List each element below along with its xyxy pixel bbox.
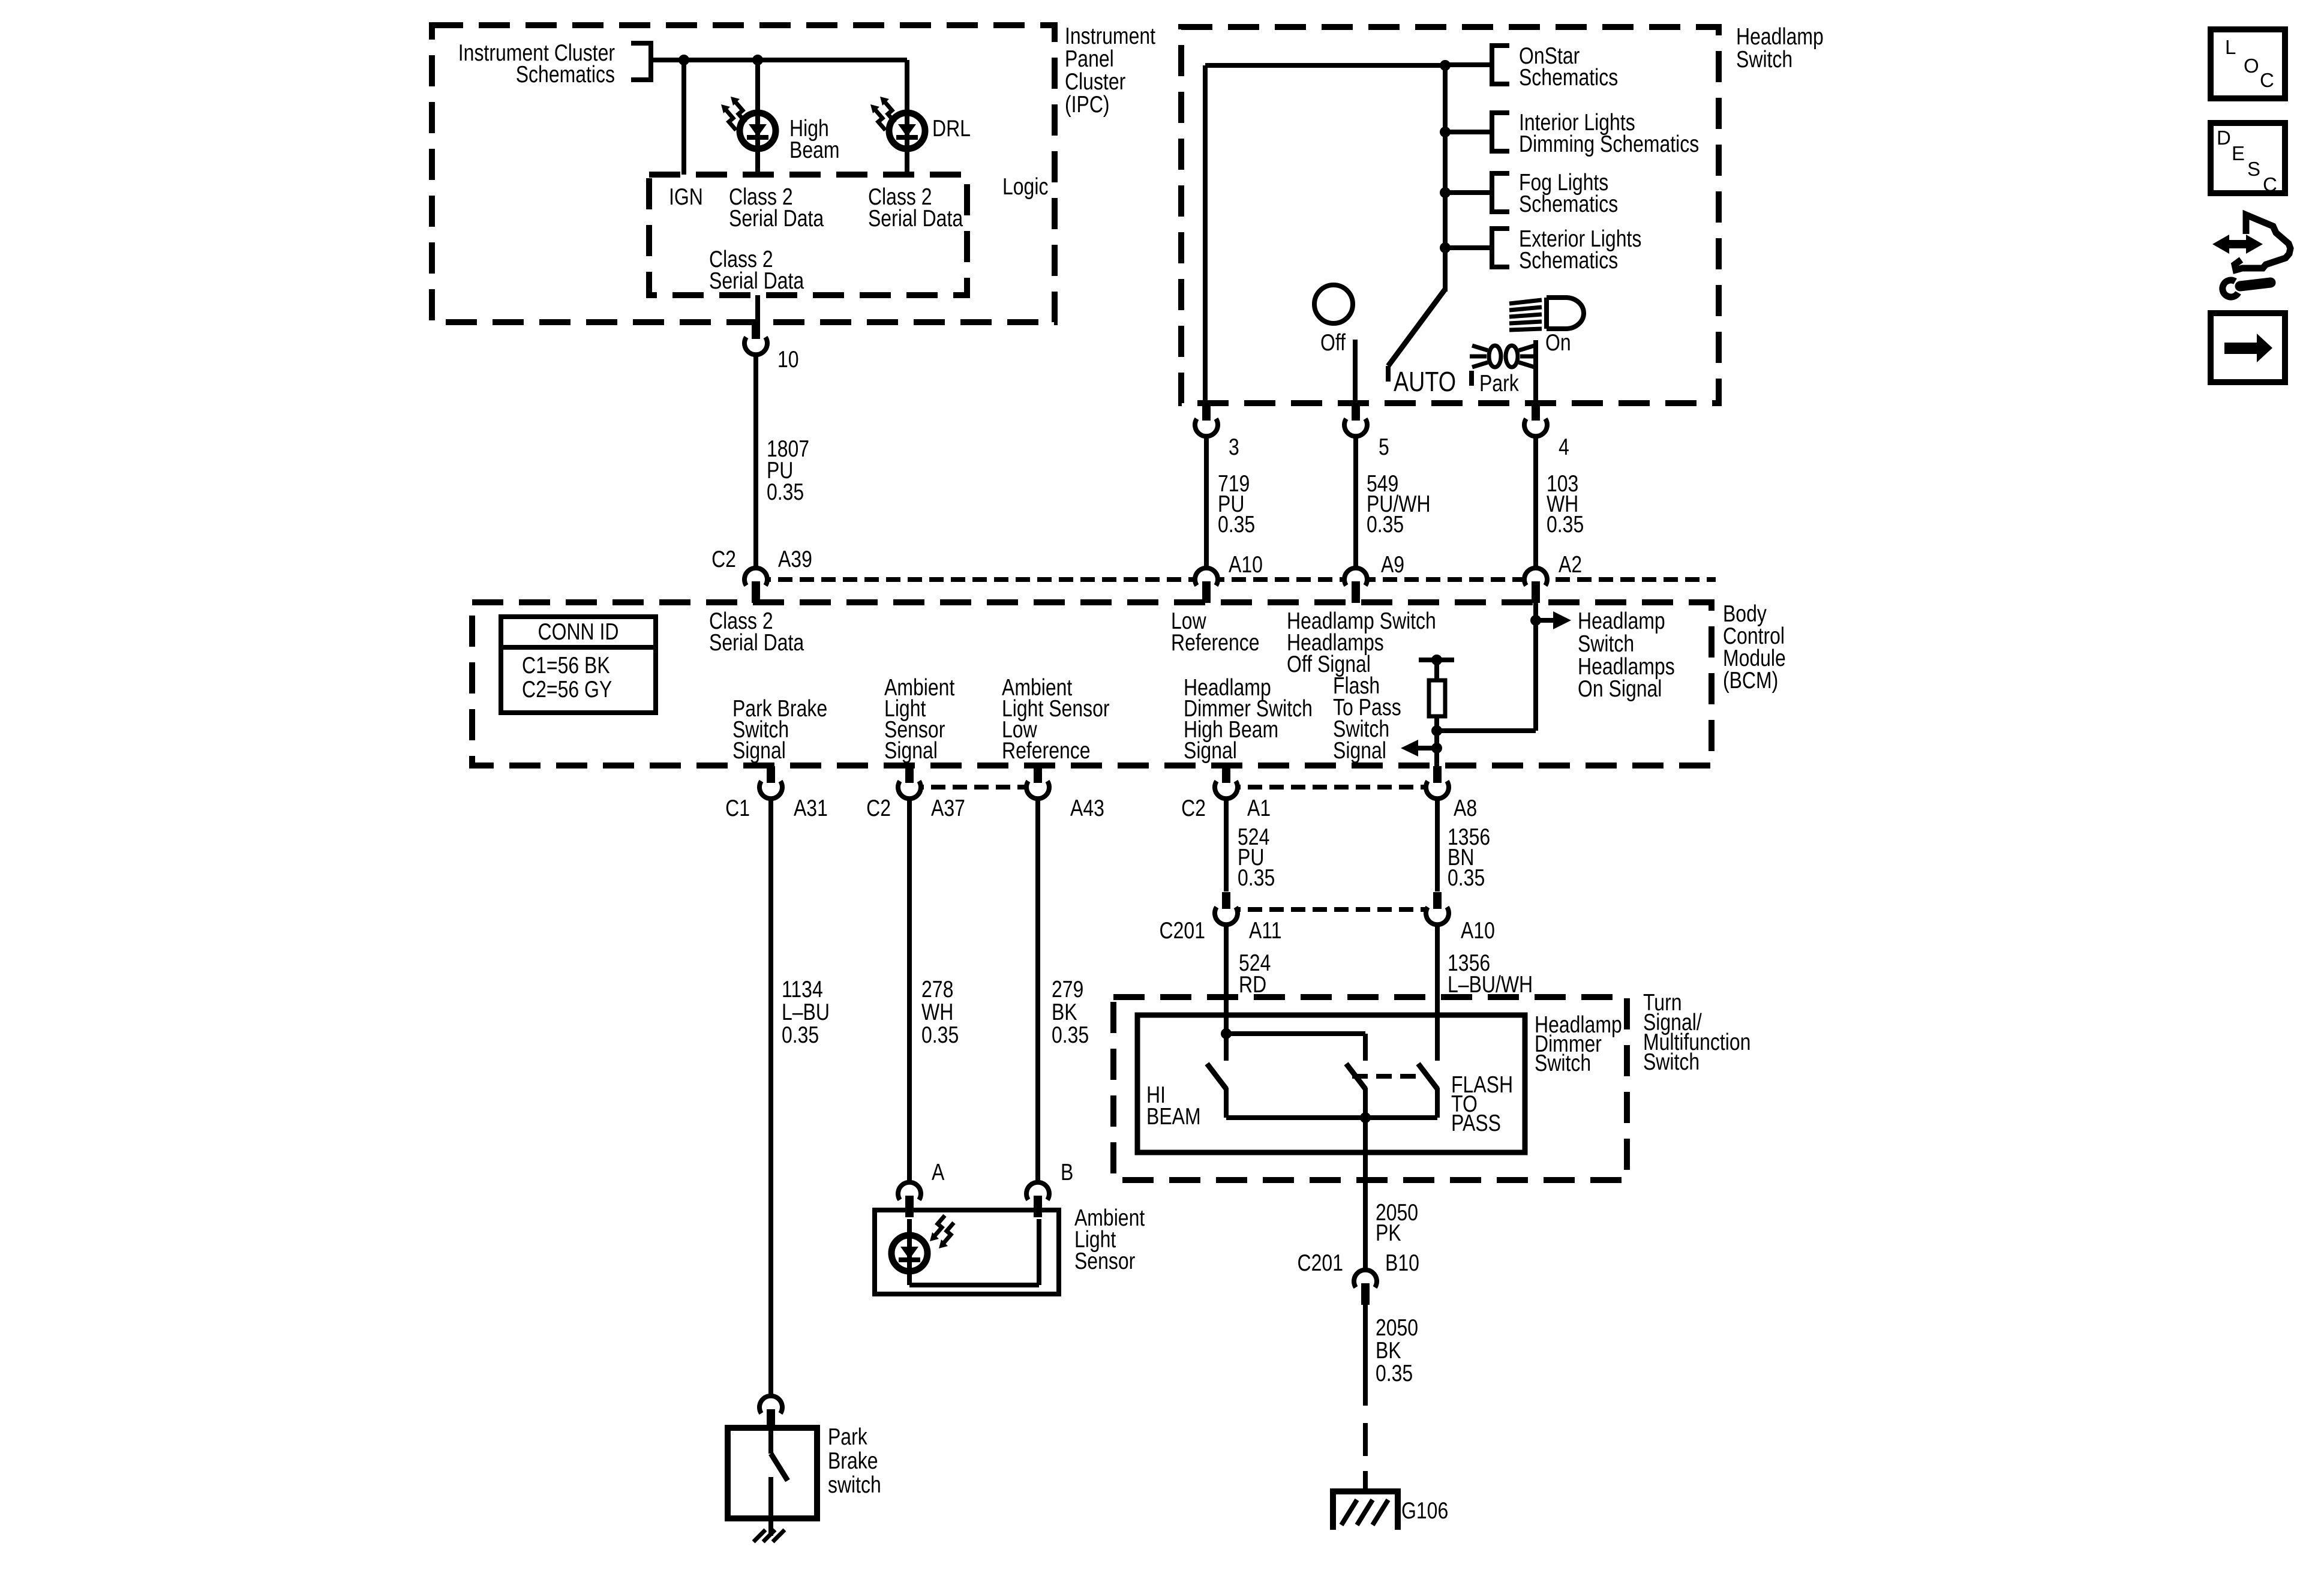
svg-text:Serial Data: Serial Data: [729, 205, 824, 232]
svg-text:C2: C2: [866, 795, 891, 821]
svg-text:C2: C2: [711, 546, 736, 572]
svg-text:C2=56 GY: C2=56 GY: [522, 676, 612, 703]
svg-text:0.35: 0.35: [1376, 1360, 1413, 1386]
svg-text:Beam: Beam: [789, 137, 840, 163]
svg-text:G106: G106: [1401, 1497, 1448, 1524]
svg-text:C201: C201: [1298, 1250, 1343, 1276]
svg-text:Schematics: Schematics: [1519, 247, 1618, 274]
svg-text:A9: A9: [1381, 551, 1404, 578]
svg-text:On: On: [1545, 329, 1571, 356]
svg-text:Switch: Switch: [1736, 46, 1792, 73]
svg-text:C2: C2: [1181, 795, 1206, 821]
svg-text:Signal: Signal: [884, 737, 938, 764]
svg-text:L: L: [2225, 36, 2236, 58]
svg-text:Dimming Schematics: Dimming Schematics: [1519, 131, 1699, 157]
svg-text:0.35: 0.35: [1218, 511, 1255, 538]
svg-text:Serial Data: Serial Data: [868, 205, 963, 232]
svg-text:CONN ID: CONN ID: [538, 619, 618, 645]
svg-text:Serial Data: Serial Data: [709, 268, 804, 294]
svg-text:C: C: [2263, 173, 2277, 196]
svg-text:switch: switch: [828, 1472, 881, 1498]
svg-text:0.35: 0.35: [1238, 864, 1275, 891]
svg-text:Park: Park: [1479, 370, 1519, 397]
svg-text:Schematics: Schematics: [1519, 191, 1618, 217]
svg-text:Off: Off: [1320, 329, 1346, 356]
svg-text:E: E: [2232, 142, 2245, 164]
svg-text:0.35: 0.35: [1367, 511, 1404, 538]
svg-text:L–BU/WH: L–BU/WH: [1448, 971, 1533, 998]
svg-text:C201: C201: [1160, 917, 1205, 944]
svg-text:0.35: 0.35: [1052, 1022, 1089, 1048]
svg-text:Reference: Reference: [1171, 629, 1260, 656]
svg-text:Signal: Signal: [1184, 737, 1237, 764]
svg-text:4: 4: [1559, 434, 1569, 460]
svg-text:Serial Data: Serial Data: [709, 629, 804, 656]
svg-text:0.35: 0.35: [921, 1022, 959, 1048]
svg-text:B: B: [1061, 1159, 1073, 1185]
svg-text:IGN: IGN: [669, 184, 703, 210]
svg-text:A10: A10: [1229, 551, 1263, 578]
svg-text:Reference: Reference: [1002, 737, 1091, 764]
svg-text:Sensor: Sensor: [1074, 1248, 1135, 1274]
svg-text:0.35: 0.35: [1448, 864, 1485, 891]
svg-text:Switch: Switch: [1535, 1050, 1591, 1076]
svg-text:BEAM: BEAM: [1146, 1103, 1201, 1130]
svg-text:Park: Park: [828, 1424, 867, 1450]
svg-text:A10: A10: [1461, 917, 1495, 944]
svg-text:10: 10: [777, 346, 799, 373]
svg-text:S: S: [2247, 158, 2260, 180]
svg-text:A11: A11: [1249, 917, 1282, 944]
svg-text:A8: A8: [1454, 795, 1477, 821]
svg-text:Signal: Signal: [1333, 737, 1386, 764]
svg-text:A2: A2: [1559, 551, 1582, 578]
svg-text:RD: RD: [1239, 971, 1266, 998]
svg-text:B10: B10: [1385, 1250, 1419, 1276]
svg-text:PK: PK: [1376, 1220, 1401, 1246]
svg-text:5: 5: [1379, 434, 1389, 460]
svg-text:0.35: 0.35: [1547, 511, 1584, 538]
svg-text:Schematics: Schematics: [1519, 64, 1618, 91]
svg-text:C1: C1: [725, 795, 750, 821]
svg-text:A31: A31: [794, 795, 828, 821]
svg-text:O: O: [2244, 55, 2259, 77]
svg-text:0.35: 0.35: [767, 479, 804, 505]
svg-text:A1: A1: [1247, 795, 1271, 821]
svg-text:C: C: [2260, 69, 2274, 91]
svg-text:Logic: Logic: [1002, 173, 1048, 200]
svg-text:0.35: 0.35: [782, 1022, 819, 1048]
svg-text:AUTO: AUTO: [1394, 366, 1456, 397]
svg-text:D: D: [2217, 127, 2231, 149]
svg-text:PASS: PASS: [1451, 1110, 1501, 1136]
svg-text:A37: A37: [931, 795, 965, 821]
svg-text:A43: A43: [1070, 795, 1104, 821]
svg-text:Schematics: Schematics: [516, 61, 615, 88]
svg-text:(IPC): (IPC): [1065, 91, 1110, 118]
svg-text:Signal: Signal: [732, 737, 786, 764]
svg-text:A: A: [932, 1159, 945, 1185]
svg-text:Brake: Brake: [828, 1448, 878, 1474]
svg-text:C1=56 BK: C1=56 BK: [522, 652, 610, 679]
svg-text:3: 3: [1229, 434, 1239, 460]
svg-text:DRL: DRL: [932, 115, 971, 142]
svg-text:On Signal: On Signal: [1578, 676, 1662, 702]
svg-text:Switch: Switch: [1643, 1049, 1700, 1075]
svg-text:(BCM): (BCM): [1723, 667, 1778, 694]
svg-text:A39: A39: [778, 546, 812, 572]
